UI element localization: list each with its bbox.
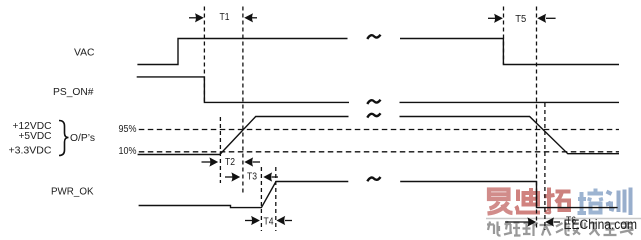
T5 left arrow <box>488 14 503 23</box>
break tilde on VAC <box>367 35 380 39</box>
dashed vertical line L2 at O/P rise start <box>219 117 221 183</box>
T1 left arrow <box>189 13 204 22</box>
T2 left arrow <box>202 157 219 166</box>
svg-text:+5VDC: +5VDC <box>19 130 52 142</box>
dashed horizontal 95% level line <box>139 129 619 131</box>
svg-text:T5: T5 <box>515 14 526 25</box>
svg-text:PWR_OK: PWR_OK <box>51 186 94 198</box>
break tilde on PWR_OK <box>367 177 380 181</box>
waveform O/P's <box>138 117 349 155</box>
dashed vertical line L8 at O/P 95% down-crossing <box>544 103 546 230</box>
svg-text:T1: T1 <box>220 12 230 23</box>
svg-text:T4: T4 <box>264 216 274 227</box>
watermark red char 2 (di) <box>516 188 540 213</box>
dashed vertical line L4 at PWR_OK rise start <box>260 167 262 231</box>
waveform VAC <box>137 39 347 65</box>
watermark blue char 4 (pei) <box>578 189 604 214</box>
T6 left arrow <box>505 217 536 226</box>
svg-text:10%: 10% <box>119 146 137 157</box>
watermark divider line <box>486 218 641 220</box>
dashed vertical line L5 at PWR_OK rise end <box>275 167 277 231</box>
waveform PWR_OK <box>139 182 349 208</box>
T6 right arrow <box>545 217 560 226</box>
dashed vertical line L7 at PWR_OK fall <box>536 7 538 231</box>
T5 right arrow <box>537 14 555 23</box>
svg-text:T2: T2 <box>225 157 235 168</box>
T2 right arrow <box>244 157 260 166</box>
watermark red char 1 (yi) <box>488 190 513 214</box>
waveform PS_ON# <box>137 77 349 103</box>
T4 right arrow <box>276 216 292 225</box>
T1 right arrow <box>244 13 257 22</box>
break tilde on O/P's <box>367 113 380 117</box>
svg-text:O/P’s: O/P’s <box>70 132 95 144</box>
watermark red char 3 (tuo) <box>544 188 571 213</box>
svg-text:95%: 95% <box>119 124 137 135</box>
dashed horizontal 10% level line <box>139 151 619 153</box>
svg-text:+3.3VDC: +3.3VDC <box>9 145 52 157</box>
dashed vertical line L3 at O/P 95% crossing <box>242 7 244 195</box>
dashed vertical line L6 at VAC fall <box>503 7 505 65</box>
svg-text:VAC: VAC <box>74 47 95 59</box>
break tilde on PS_ON# <box>367 100 380 104</box>
watermark gray slogan row: she pin he tian xian she ji zhuan jia <box>487 221 634 236</box>
svg-text:EEChina.com: EEChina.com <box>564 217 638 232</box>
T4 left arrow <box>245 216 260 225</box>
watermark blue char 5 (xun) <box>606 188 631 216</box>
dashed vertical line L1 at PS_ON# fall <box>203 7 205 103</box>
T3 right arrow <box>263 172 278 181</box>
svg-text:T3: T3 <box>247 172 257 183</box>
brace grouping outputs <box>59 121 69 156</box>
svg-text:PS_ON#: PS_ON# <box>53 86 94 98</box>
T3 left arrow <box>225 172 240 181</box>
